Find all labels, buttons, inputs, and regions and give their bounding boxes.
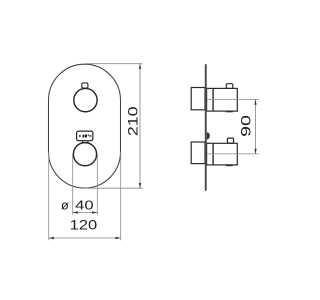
90 extension line bottom (knob centerline): [207, 153, 259, 155]
120 extension line right: [120, 152, 122, 240]
side view: lower knob bottom mark: [226, 164, 233, 166]
120 dimension line: [49, 237, 121, 239]
120 extension line left: [48, 152, 50, 240]
side view: top knob body: [207, 88, 238, 111]
side view: lower knob body: [207, 143, 238, 165]
svg-text:90: 90: [239, 115, 254, 137]
svg-text:40: 40: [75, 199, 93, 213]
210 extension line bottom: [85, 187, 143, 189]
side view: top knob divider: [212, 88, 214, 111]
temperature knob circle (top): [74, 88, 97, 111]
210 dimension line: [139, 64, 141, 189]
side view: lower knob tab: [227, 138, 233, 143]
90 extension line top (knob centerline): [207, 99, 259, 101]
svg-text:ø: ø: [61, 197, 69, 212]
side view: lower knob divider: [212, 143, 214, 165]
label marking: [79, 134, 92, 137]
volume knob circle (bottom): [73, 143, 96, 166]
top knob tab (front): [82, 83, 88, 88]
label plate between knobs: [77, 131, 93, 141]
210 extension line top: [85, 63, 143, 65]
svg-text:210: 210: [126, 106, 141, 136]
diameter 40 extension line left: [72, 154, 74, 215]
svg-text:120: 120: [70, 218, 98, 234]
wall plate front view (oval escutcheon): [49, 64, 121, 188]
diameter 40 dimension line: [73, 211, 98, 213]
90 dimension line: [254, 100, 256, 154]
side view: top knob bottom mark: [226, 110, 233, 112]
side view: top knob flange: [191, 88, 205, 110]
side view: top knob tab: [226, 84, 233, 89]
side view: lower knob flange: [191, 142, 205, 164]
side view label bump: [207, 132, 210, 139]
side view wall plate (edge-on): [205, 64, 207, 191]
diameter 40 extension line right: [96, 154, 98, 215]
label feet: [82, 141, 84, 143]
